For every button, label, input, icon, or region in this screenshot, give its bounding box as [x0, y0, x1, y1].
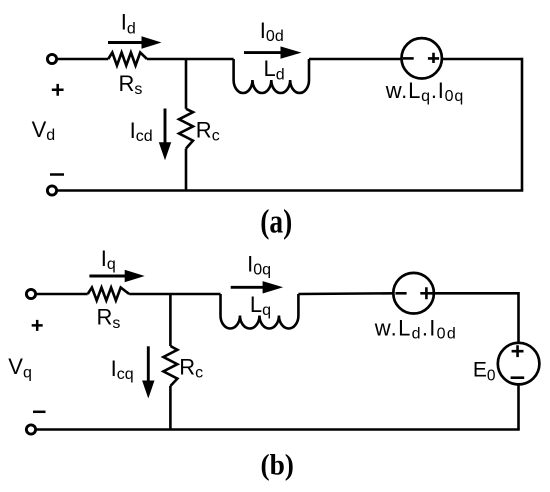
current arrow Icq: [142, 346, 154, 398]
terminal bottom-left (b): [26, 425, 35, 434]
svg-text:(a): (a): [260, 204, 292, 241]
svg-text:E0: E0: [473, 358, 496, 384]
wire bottom rail (a): [57, 189, 523, 192]
wire Rs to inductor (a), through node: [147, 58, 234, 61]
inductor Ld (a): [234, 59, 309, 93]
current arrow Icd: [159, 109, 171, 161]
wire shunt branch lower (a): [185, 149, 188, 191]
terminal top-left (a): [47, 54, 56, 63]
terminal top-left (b): [26, 289, 35, 298]
inductor Lq (b): [221, 294, 299, 329]
current arrow Id: [108, 36, 162, 48]
wire inductor to source (b): [298, 292, 393, 295]
svg-text:Rs: Rs: [97, 305, 121, 332]
resistor Rc (b): [163, 346, 177, 386]
svg-text:I0d: I0d: [260, 18, 284, 45]
resistor Rs (a): [108, 53, 147, 66]
svg-text:Lq: Lq: [250, 292, 271, 319]
svg-text:Rs: Rs: [119, 71, 143, 98]
svg-text:Icq: Icq: [111, 356, 134, 383]
wire source to top-right corner (a): [442, 58, 522, 61]
current arrow I0q: [231, 281, 283, 293]
svg-text:Icd: Icd: [130, 118, 153, 145]
svg-text:Iq: Iq: [101, 246, 116, 273]
wire source to top-right corner (b): [434, 292, 519, 295]
svg-text:(b): (b): [260, 449, 294, 482]
svg-text:I0q: I0q: [247, 252, 271, 279]
source U1 w.Lq.I0q (a): [402, 38, 442, 78]
current arrow I0d: [244, 46, 302, 58]
wire shunt branch lower (b): [169, 386, 172, 430]
plus sign (b): [32, 320, 43, 331]
wire inductor to source (a): [309, 58, 402, 61]
resistor Rc (a): [179, 109, 193, 149]
svg-text:w.Lq.I0q: w.Lq.I0q: [385, 78, 464, 105]
wire right rail lower (b): [517, 385, 520, 430]
source E0 (b): [498, 343, 540, 385]
plus sign (a): [52, 84, 64, 96]
svg-text:Id: Id: [121, 10, 136, 38]
wire terminal to Rs (b): [36, 293, 88, 296]
minus sign (a): [50, 173, 64, 176]
svg-text:Rc: Rc: [179, 354, 203, 381]
source U2 w.Ld.I0d (b): [393, 273, 434, 314]
svg-text:w.Ld.I0d: w.Ld.I0d: [374, 316, 457, 343]
svg-text:Rc: Rc: [196, 118, 220, 145]
wire bottom rail (b): [36, 428, 520, 431]
wire terminal to Rs (a): [57, 58, 108, 61]
svg-text:Vd: Vd: [32, 117, 56, 144]
resistor Rs (b): [88, 288, 130, 301]
wire Rs to inductor (b), through node: [129, 293, 220, 296]
terminal bottom-left (a): [47, 186, 56, 195]
svg-text:Vq: Vq: [8, 354, 32, 381]
wire right rail upper (b): [517, 292, 520, 343]
minus sign (b): [33, 411, 46, 414]
wire right rail (a): [521, 58, 524, 191]
wire shunt branch upper (b): [169, 294, 172, 346]
current arrow Iq: [89, 270, 144, 282]
wire shunt branch upper (a): [185, 59, 188, 109]
svg-text:Ld: Ld: [264, 56, 285, 84]
